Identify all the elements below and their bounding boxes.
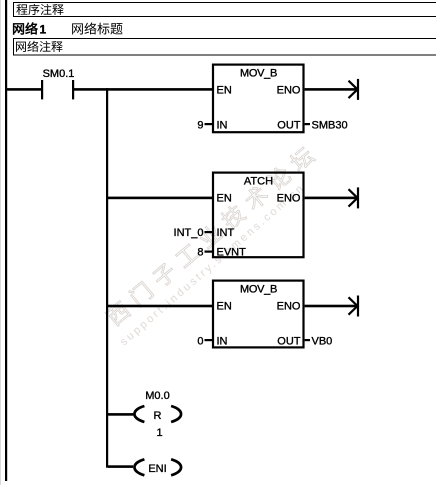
wire U3 ENO to arrow [305,305,358,308]
svg-text:ENI: ENI [148,463,166,475]
block U2 INT stub [205,231,214,233]
svg-text:OUT: OUT [277,336,301,348]
open branch arrow 3 [349,296,360,317]
branch wire vertical [106,88,108,468]
svg-text:INT: INT [217,227,235,239]
block U1 IN stub [205,123,214,125]
svg-text:ENO: ENO [277,301,301,313]
svg-text:EVNT: EVNT [217,247,247,259]
svg-text:SMB30: SMB30 [312,120,348,132]
wire branch to coil R [108,413,134,416]
svg-text:8: 8 [197,247,203,259]
svg-text:9: 9 [197,120,203,132]
network title text 网络标题 [72,23,83,34]
block U3 OUT stub [305,339,310,341]
wire branch to coil ENI [108,465,133,468]
network label 网络 1 [13,23,24,34]
svg-text:SM0.1: SM0.1 [43,68,75,80]
svg-text:OUT: OUT [277,120,301,132]
wire branch to block U3 [108,305,213,308]
block U2 EVNT stub [205,251,214,253]
svg-text:IN: IN [217,120,228,132]
svg-text:VB0: VB0 [312,336,333,348]
program comment box [14,3,436,17]
svg-text:ENO: ENO [277,193,301,205]
svg-text:M0.0: M0.0 [145,390,169,402]
svg-text:EN: EN [217,193,232,205]
svg-text:0: 0 [197,336,203,348]
wire U1 ENO to arrow [305,88,358,91]
svg-text:ENO: ENO [277,85,301,97]
wire U2 ENO to arrow [305,197,358,200]
svg-text:MOV_B: MOV_B [240,284,277,296]
network comment text 网络注释 [16,42,26,52]
wire contact to block U1 [74,88,213,91]
svg-text:IN: IN [217,336,228,348]
svg-text:ATCH: ATCH [244,176,273,188]
network comment box [14,39,436,56]
svg-text:EN: EN [217,85,232,97]
function block U1 MOV_B [213,65,304,133]
watermark chinese text 西门子工业技术论坛 (rotated) [104,145,316,328]
wire rail to contact [7,88,41,91]
svg-text:R: R [154,410,162,422]
svg-text:MOV_B: MOV_B [240,68,277,80]
open branch arrow 2 [349,187,360,208]
left power rail [5,0,7,481]
svg-text:EN: EN [217,301,232,313]
svg-text:1: 1 [40,23,47,37]
coil R M0.0 [134,406,181,422]
svg-text:1: 1 [156,427,162,439]
window left edge [0,0,1,485]
contact SM0.1 [41,80,74,99]
function block U2 ATCH [213,173,304,258]
svg-text:INT_0: INT_0 [174,227,204,239]
block U1 OUT stub [305,123,310,125]
function block U3 MOV_B [213,281,304,348]
wire branch to block U2 [108,197,213,200]
program comment text 程序注释 [16,4,27,15]
block U3 IN stub [205,339,214,341]
open branch arrow 1 [349,79,360,100]
coil ENI [134,459,181,475]
